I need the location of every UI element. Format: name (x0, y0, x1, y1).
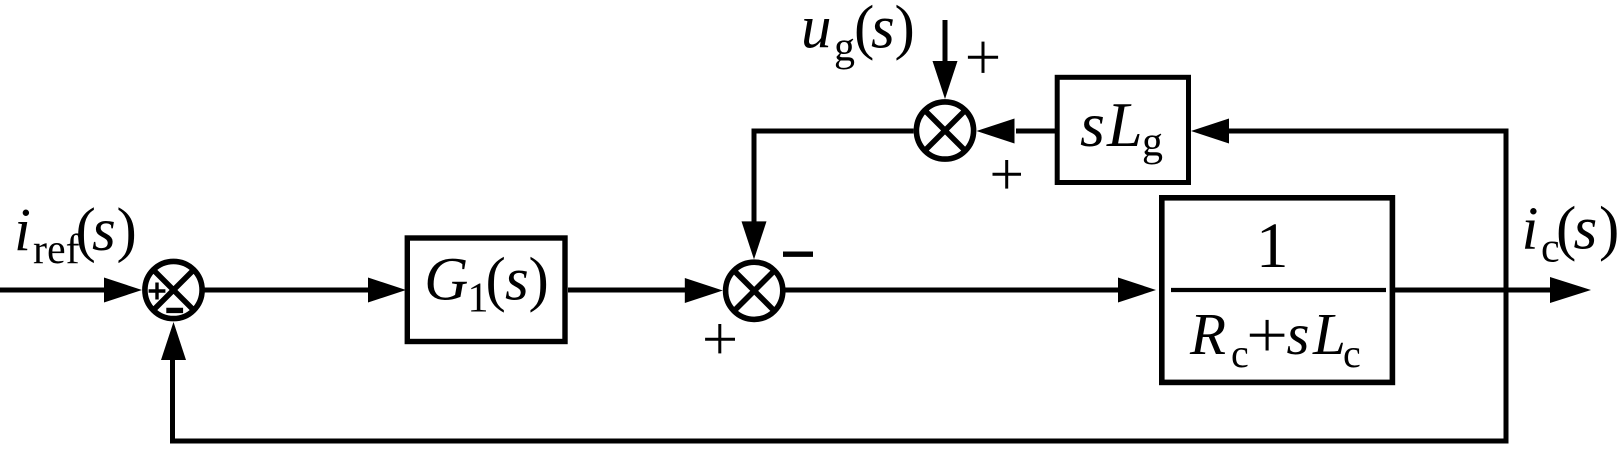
svg-text:s: s (1080, 89, 1105, 160)
plus sign (inside S1, left) (149, 283, 166, 300)
wire: feedback vertical at output tap (1504, 129, 1509, 444)
fraction bar (1171, 288, 1386, 292)
wire: G1 to S2 (568, 288, 688, 293)
label i_ref(s) (14, 197, 137, 273)
svg-text:c: c (1343, 331, 1361, 376)
label i_c(s) (1522, 196, 1620, 272)
arrowhead into sLg (1191, 119, 1229, 144)
wire: top branch to sLg (1228, 129, 1506, 134)
label denominator Rc+sLc (1189, 301, 1361, 376)
label sLg (1080, 89, 1163, 166)
plus sign (below-left of S2) (705, 324, 735, 353)
wire: input line (0, 288, 108, 293)
svg-text:(: ( (486, 247, 506, 314)
svg-text:i: i (14, 197, 31, 264)
block 1/(Rc+sLc) (1162, 198, 1393, 383)
svg-text:): ) (1599, 196, 1619, 263)
summing junction S2 (726, 262, 783, 319)
label G1(s) (424, 247, 549, 322)
arrowhead into S2 (685, 278, 723, 303)
svg-text:g: g (834, 25, 855, 71)
arrowhead into summing junction S1 (104, 278, 142, 303)
plus sign (in denominator, drawn) (1250, 320, 1285, 351)
svg-text:s: s (1287, 301, 1310, 367)
svg-text:u: u (801, 0, 832, 62)
svg-text:s: s (1574, 196, 1598, 263)
wire: S1 to G1 (202, 288, 372, 293)
arrowhead into G1 (368, 278, 406, 303)
wire: output line (1395, 288, 1552, 293)
wire: sLg to S3 (1016, 129, 1055, 134)
plus sign (below-right of S3) (993, 160, 1022, 189)
wire: bottom feedback path (173, 358, 1507, 441)
minus sign (above-right of S2) (783, 252, 813, 257)
svg-text:): ) (117, 197, 137, 264)
arrowhead into S1 from bottom (161, 322, 186, 360)
arrowhead into S3 (977, 119, 1015, 144)
wire: S2 to plant block (785, 288, 1120, 293)
svg-text:ref: ref (33, 227, 80, 273)
minus sign (inside S1, bottom) (166, 308, 183, 313)
arrowhead into plant block (1118, 278, 1156, 303)
svg-text:g: g (1142, 120, 1163, 166)
svg-text:s: s (92, 197, 116, 264)
svg-text:1: 1 (1256, 210, 1289, 282)
label u_g(s) (801, 0, 915, 71)
plus sign (right of ug arrow) (968, 42, 998, 73)
block G1(s) (407, 238, 565, 342)
svg-text:L: L (1312, 301, 1346, 367)
arrowhead into S2 from top (742, 221, 767, 259)
svg-text:): ) (529, 247, 549, 314)
svg-text:s: s (871, 0, 895, 62)
arrowhead into S3 from top (933, 61, 958, 99)
svg-text:s: s (505, 247, 529, 314)
wire: ug input vertical (943, 20, 948, 63)
svg-text:L: L (1106, 89, 1143, 160)
summing junction S3 (916, 102, 973, 159)
svg-text:G: G (424, 247, 468, 314)
svg-text:): ) (895, 0, 915, 62)
arrowhead output (1550, 277, 1591, 303)
block sLg (1057, 77, 1188, 182)
svg-text:R: R (1189, 301, 1226, 367)
svg-text:i: i (1522, 196, 1539, 263)
svg-text:c: c (1231, 331, 1249, 376)
wire: S3 to corner and down to S2 top (754, 131, 914, 224)
summing junction S1 (145, 261, 202, 318)
